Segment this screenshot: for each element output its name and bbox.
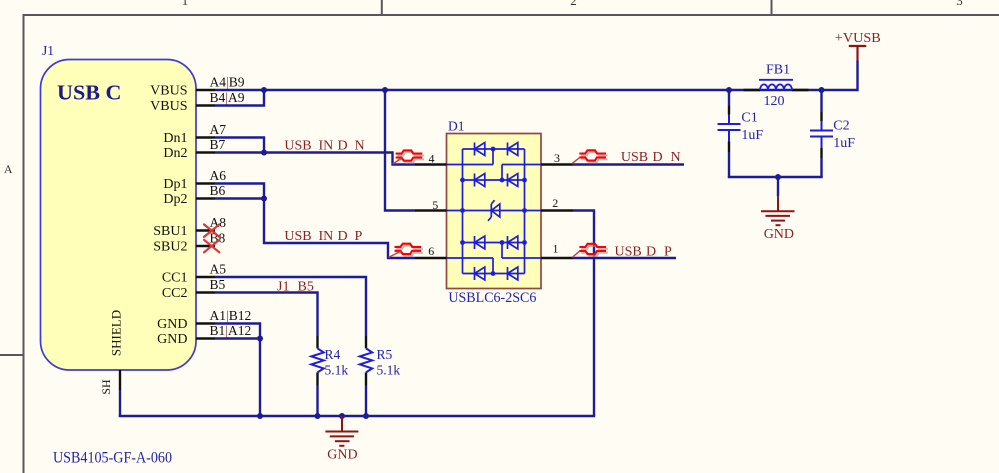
svg-text:J1: J1 <box>42 43 54 58</box>
svg-text:A6: A6 <box>210 168 227 183</box>
wire Dn2 B7 <box>215 151 264 153</box>
wire R5 to rail <box>365 386 367 417</box>
pin B7 (Dn2) stub <box>196 151 215 153</box>
svg-text:A7: A7 <box>210 122 227 137</box>
svg-text:SBU1: SBU1 <box>153 224 187 239</box>
D1 pin1 internal wire <box>502 257 541 259</box>
svg-text:GND: GND <box>764 227 794 242</box>
svg-text:6: 6 <box>428 244 434 258</box>
D1 diode row4 wire <box>463 273 525 275</box>
svg-text:A5: A5 <box>210 262 227 277</box>
D1 row2 nodes <box>460 178 465 183</box>
wire CC2 B5 to R4 <box>215 293 318 337</box>
node VBUS junction at connector <box>261 87 267 93</box>
svg-text:120: 120 <box>764 94 785 109</box>
wire C2 lower <box>820 158 822 177</box>
D1 diode row2 left diode <box>474 174 476 187</box>
node VBUS at C1 <box>726 87 732 93</box>
svg-text:CC1: CC1 <box>162 271 188 286</box>
D1 row1 mid node <box>491 147 496 152</box>
D1 internal right rail <box>524 149 526 274</box>
D1 diode row3 right diode <box>507 236 509 249</box>
wire VBUS A4 to junction <box>215 89 264 91</box>
svg-text:Dp1: Dp1 <box>163 177 187 192</box>
D1 diode row3 wire <box>463 242 525 244</box>
pin A8 (SBU1) stub <box>196 229 215 231</box>
power symbol +VUSB <box>849 46 866 61</box>
svg-text:D1: D1 <box>448 119 465 134</box>
svg-text:A4|B9: A4|B9 <box>210 75 245 90</box>
pin A7 (Dn1) stub <box>196 136 215 138</box>
no-connect X on pin B8 <box>204 240 219 253</box>
wire D1 pin3 to USB_D_N <box>573 163 684 165</box>
ground symbol near caps <box>761 196 795 225</box>
ground symbol at bottom <box>325 416 358 446</box>
node rail at R5 <box>363 413 369 419</box>
D1 zener nodes <box>460 208 465 213</box>
svg-text:GND: GND <box>327 448 357 463</box>
differential pair marker at D1 pin3 <box>581 152 608 162</box>
svg-text:C1: C1 <box>741 111 757 126</box>
pin A1|B12 (GND) stub <box>196 322 215 324</box>
D1 pin6 internal wire <box>447 257 494 259</box>
svg-text:Dn1: Dn1 <box>163 131 187 146</box>
wire VBUS B4 segment <box>215 90 264 106</box>
svg-text:2: 2 <box>570 0 577 8</box>
ferrite bead FB1 symbol <box>760 84 792 90</box>
svg-text:3: 3 <box>554 151 560 165</box>
pin B8 (SBU2) stub <box>196 245 215 247</box>
D1 diode row1 left diode <box>474 143 476 156</box>
D1 diode row2 wire <box>463 179 525 181</box>
svg-text:5.1k: 5.1k <box>325 363 349 378</box>
wire GND B1 <box>215 337 260 339</box>
svg-text:2: 2 <box>552 196 558 210</box>
D1 row1 mid to pin4 wire <box>492 149 494 165</box>
node GND pins junction <box>257 336 263 342</box>
svg-text:1uF: 1uF <box>741 128 763 143</box>
svg-text:VBUS: VBUS <box>150 84 187 99</box>
svg-text:USBLC6-2SC6: USBLC6-2SC6 <box>448 290 536 306</box>
pin B1|A12 (GND) stub <box>196 337 215 339</box>
wire GND A1 jog down <box>215 324 260 417</box>
D1 pin 5 <box>415 209 447 211</box>
resistor R5 pins <box>365 336 367 386</box>
svg-text:B8: B8 <box>210 231 226 246</box>
svg-text:FB1: FB1 <box>766 63 790 78</box>
node rail at R4 <box>315 413 321 419</box>
svg-text:USB C: USB C <box>57 81 122 105</box>
component D1 body <box>447 134 542 289</box>
svg-text:B1|A12: B1|A12 <box>210 323 252 338</box>
D1 pin 6 <box>415 257 447 259</box>
D1 zener row wire <box>447 210 542 212</box>
svg-text:A: A <box>4 162 13 176</box>
svg-text:SH: SH <box>99 379 113 395</box>
wire Dp2 B6 <box>215 197 264 199</box>
pin A6 (Dp1) stub <box>196 182 215 184</box>
node VBUS at C2 <box>819 87 825 93</box>
svg-text:3: 3 <box>956 0 963 8</box>
D1 diode row4 left diode <box>474 267 476 280</box>
node Dp junction <box>261 196 267 202</box>
wire R4 to rail <box>316 386 318 417</box>
svg-text:R5: R5 <box>377 347 393 362</box>
resistor R5 zigzag <box>360 348 372 372</box>
resistor R4 pins <box>316 336 318 386</box>
wire C1 lower <box>728 152 730 177</box>
connector J1 body (USB C) <box>41 60 197 371</box>
svg-text:VBUS: VBUS <box>150 99 187 114</box>
D1 pin 1 <box>541 257 573 259</box>
pin B5 (CC2) stub <box>196 291 215 293</box>
wire to +VUSB <box>856 61 858 92</box>
wire D1 pin2 to ground rail <box>573 211 594 417</box>
wire D1 pin1 to USB_D_P <box>573 257 676 259</box>
D1 diode row1 wire <box>463 148 525 150</box>
wire USB_IN_D_P to D1 pin6 <box>264 199 415 259</box>
D1 diode row1 right diode <box>507 143 509 156</box>
D1 row4 mid to pin6 wire <box>492 258 494 274</box>
pin B4|A9 (VBUS) stub <box>196 104 215 106</box>
resistor R4 zigzag <box>311 348 323 372</box>
svg-text:B5: B5 <box>210 277 226 292</box>
svg-text:5: 5 <box>432 198 438 212</box>
wire to ground symbol near caps <box>777 177 779 196</box>
svg-text:GND: GND <box>157 317 187 332</box>
D1 diode row4 right diode <box>507 267 509 280</box>
svg-text:A1|B12: A1|B12 <box>210 308 252 323</box>
wire VBUS main rail <box>264 89 858 91</box>
svg-text:Dp2: Dp2 <box>163 192 187 207</box>
pin SH stub <box>119 370 121 390</box>
wire C2 upper <box>820 90 822 112</box>
D1 row3 mid to pin1 wire <box>501 243 503 259</box>
differential pair marker at D1 pin1 <box>581 246 608 256</box>
pin A4|B9 (VBUS) stub <box>196 89 215 91</box>
differential pair marker at D1 pin6 <box>396 246 423 256</box>
svg-text:+VUSB: +VUSB <box>835 30 881 45</box>
svg-text:GND: GND <box>157 332 187 347</box>
svg-text:CC2: CC2 <box>162 286 188 301</box>
D1 zener diode <box>488 200 500 221</box>
ferrite bead FB1 pins <box>744 89 809 91</box>
capacitor C1 <box>728 106 730 152</box>
svg-text:SHIELD: SHIELD <box>109 310 124 356</box>
D1 diode row2 right diode <box>507 174 509 187</box>
wire C1 upper <box>728 90 730 106</box>
D1 pin 3 <box>541 163 573 165</box>
svg-text:R4: R4 <box>325 347 341 362</box>
capacitor C2 <box>820 112 822 158</box>
node Dn junction <box>261 150 267 156</box>
D1 pin3 internal wire <box>502 164 541 166</box>
differential pair marker at D1 pin4 <box>397 152 424 162</box>
D1 pin 4 <box>415 163 447 165</box>
svg-text:1uF: 1uF <box>833 136 855 151</box>
node VBUS rail junction x385 <box>382 87 388 93</box>
D1 internal left rail <box>462 149 464 274</box>
node rail at GND pins <box>257 413 263 419</box>
svg-text:1: 1 <box>182 0 189 8</box>
svg-text:C2: C2 <box>833 118 849 133</box>
wire capacitor ground rail <box>728 176 823 178</box>
D1 pin 2 <box>541 209 573 211</box>
svg-text:B6: B6 <box>210 183 226 198</box>
D1 pin4 internal wire <box>447 164 494 166</box>
node cap rail at GND <box>775 174 781 180</box>
pin A5 (CC1) stub <box>196 276 215 278</box>
svg-text:5.1k: 5.1k <box>377 363 401 378</box>
svg-text:1: 1 <box>553 241 559 255</box>
svg-text:Dn2: Dn2 <box>163 146 187 161</box>
wire USB_IN_D_N to D1 pin4 <box>264 153 415 165</box>
D1 row4 mid node <box>491 271 496 276</box>
no-connect X on pin A8 <box>204 224 219 237</box>
pin B6 (Dp2) stub <box>196 197 215 199</box>
wire bottom ground rail <box>119 415 595 417</box>
node rail at GND symbol <box>339 413 345 419</box>
svg-text:B4|A9: B4|A9 <box>210 90 245 105</box>
wire SHIELD down <box>119 390 121 417</box>
D1 row3 nodes <box>460 240 465 245</box>
svg-text:SBU2: SBU2 <box>153 240 187 255</box>
wire Dn1 A7 jog down <box>215 138 264 153</box>
svg-text:USB4105-GF-A-060: USB4105-GF-A-060 <box>53 450 172 467</box>
D1 row2 mid to pin3 wire <box>501 165 503 181</box>
svg-text:A8: A8 <box>210 215 227 230</box>
svg-text:4: 4 <box>429 151 435 165</box>
wire Dp1 A6 jog down <box>215 184 264 199</box>
wire CC1 A5 to R5 <box>215 277 366 336</box>
D1 diode row3 left diode <box>474 236 476 249</box>
wire VBUS drop to D1 pin5 <box>385 90 415 211</box>
svg-text:B7: B7 <box>210 137 226 152</box>
